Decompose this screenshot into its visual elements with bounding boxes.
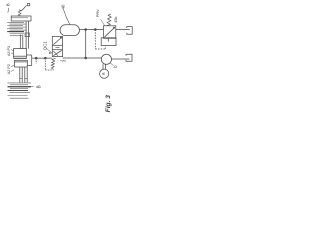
svg-text:a: a <box>102 72 107 75</box>
svg-text:Fig. 3: Fig. 3 <box>105 95 112 113</box>
svg-text:3: 3 <box>62 59 67 62</box>
svg-text:DC1: DC1 <box>42 41 47 50</box>
svg-text:PRV: PRV <box>96 9 100 17</box>
svg-text:8: 8 <box>6 3 12 6</box>
svg-text:A3 P3: A3 P3 <box>7 46 11 56</box>
svg-text:8: 8 <box>36 85 42 88</box>
svg-text:b: b <box>113 65 118 68</box>
svg-text:A2 P2: A2 P2 <box>7 64 11 74</box>
svg-text:40: 40 <box>60 4 65 9</box>
svg-text:45b: 45b <box>114 17 118 23</box>
